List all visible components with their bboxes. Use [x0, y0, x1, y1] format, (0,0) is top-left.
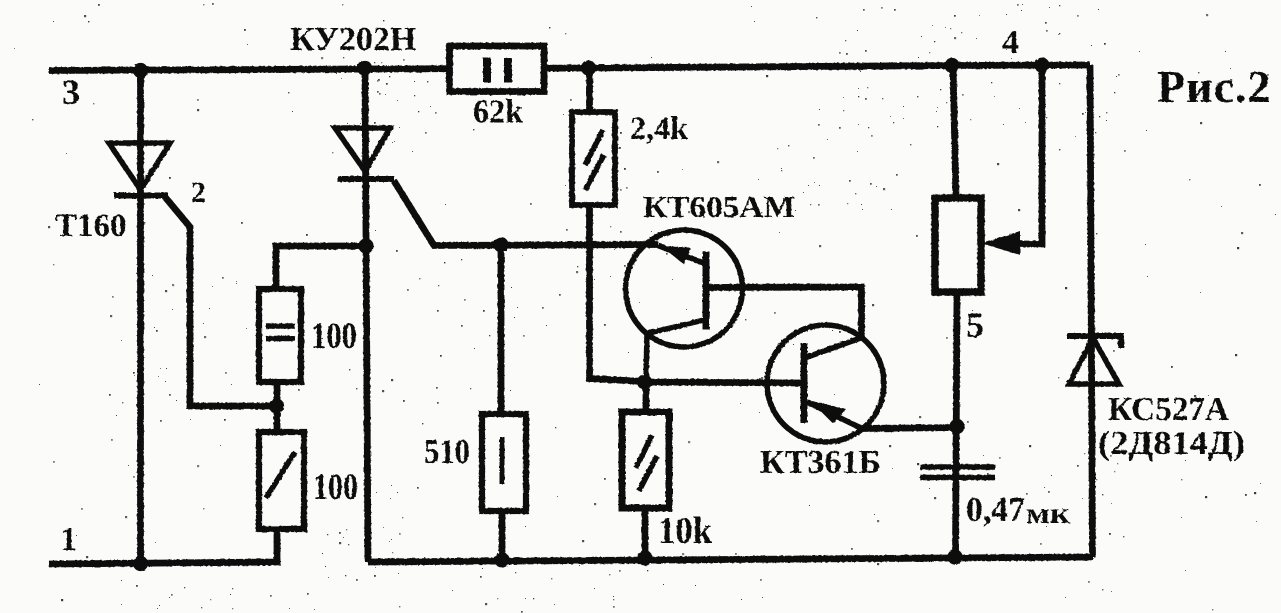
- svg-text:КТ605АМ: КТ605АМ: [643, 189, 795, 224]
- resistor 510 power mark: [500, 437, 505, 484]
- node dot collector: [637, 374, 652, 389]
- svg-text:КТ361Б: КТ361Б: [760, 444, 881, 481]
- transistor Q2 base bar: [801, 343, 808, 423]
- svg-text:КС527А: КС527А: [1108, 391, 1229, 428]
- thyristor VS1 cathode bar: [114, 193, 168, 199]
- transistor Q2 KT361B circle: [767, 325, 884, 442]
- node dot top VS2: [357, 60, 372, 75]
- node dot T160 bottom: [133, 556, 148, 571]
- wire thyristor VS2 cathode vertical: [365, 68, 368, 562]
- node dot 10k bottom: [637, 550, 652, 565]
- svg-text:1: 1: [60, 521, 77, 558]
- resistor 2.4k body: [572, 112, 615, 205]
- transistor Q2 emitter arrow: [810, 401, 846, 424]
- node dot top 22k: [944, 58, 959, 73]
- svg-text:510: 510: [424, 432, 470, 471]
- svg-text:2,4k: 2,4k: [630, 111, 689, 147]
- svg-text:(2Д814Д): (2Д814Д): [1098, 425, 1245, 462]
- svg-text:5: 5: [966, 305, 984, 345]
- svg-text:КУ202Н: КУ202Н: [290, 21, 416, 58]
- wire bottom left bus node 1: [49, 562, 281, 564]
- svg-text:3: 3: [62, 72, 80, 112]
- wire 510 top lead: [498, 245, 505, 414]
- zener diode VD1 triangle: [1069, 338, 1119, 384]
- transistor Q1 collector diagonal: [646, 320, 704, 382]
- svg-text:100: 100: [311, 316, 357, 357]
- resistor 100 lower power mark: [266, 452, 295, 498]
- svg-text:2: 2: [191, 176, 206, 209]
- zener diode VD1 cathode bar: [1067, 336, 1121, 348]
- resistor 100 upper body R2: [259, 289, 301, 382]
- thyristor VS1 T160 triangle: [109, 143, 170, 190]
- node dot top T160: [133, 63, 148, 78]
- wire 2.4k top lead: [586, 69, 593, 113]
- resistor 62k power marks: [487, 58, 508, 83]
- wire collector node to KT361 base: [644, 382, 804, 383]
- transistor Q1 emitter diagonal: [658, 246, 705, 264]
- node dot cap bottom: [947, 549, 962, 564]
- wire 10k top lead: [643, 382, 650, 412]
- thyristor VS2 KU202N triangle: [335, 128, 390, 171]
- wire KT605 base to KT361 collector: [706, 287, 862, 338]
- resistor 100 lower body R3: [259, 432, 304, 529]
- node dot 4 wiper: [1034, 58, 1049, 73]
- transistor Q2 emitter diagonal: [807, 402, 862, 429]
- wire T160 branch vertical: [137, 71, 144, 564]
- node dot 510 bottom: [494, 552, 509, 567]
- resistor 22k body (potentiometer): [935, 198, 981, 292]
- wire top bus 3-4: [49, 65, 1090, 71]
- resistor 100 upper power marks: [266, 326, 295, 339]
- node dot cap top: [949, 419, 964, 434]
- resistor 10k power marks: [636, 435, 657, 491]
- wire 100 bottom lead: [274, 529, 281, 563]
- wire 22k bottom through cap to bottom bus: [956, 292, 958, 557]
- node dot between 100s: [269, 398, 284, 413]
- transistor Q2 collector diagonal: [806, 338, 862, 358]
- svg-text:100: 100: [313, 467, 358, 508]
- svg-text:62k: 62k: [473, 94, 523, 131]
- svg-text:0,47: 0,47: [966, 490, 1025, 529]
- resistor 62k body: [450, 46, 545, 92]
- thyristor VS2 cathode bar: [338, 176, 395, 182]
- node dot 510 top: [493, 237, 508, 252]
- resistor 2.4k power marks: [585, 130, 604, 190]
- wire 22k wiper from node 4: [1018, 65, 1042, 244]
- wire bus to R 100 top: [276, 246, 366, 292]
- wire between 100 resistors: [274, 382, 281, 432]
- resistor 510 body: [482, 414, 526, 511]
- wire right vertical to zener: [1090, 65, 1093, 557]
- wire bottom right bus: [368, 557, 1093, 562]
- svg-text:Т160: Т160: [55, 208, 127, 244]
- wire 22k top lead: [953, 66, 956, 199]
- wire 510 bottom lead: [499, 511, 506, 560]
- transistor Q1 KT605AM circle: [626, 230, 743, 347]
- svg-text:4: 4: [1002, 24, 1019, 61]
- wire 10k bottom lead: [642, 509, 649, 559]
- wire VS2 gate diagonal and emitter bus: [394, 181, 658, 246]
- transistor Q1 emitter arrow: [661, 246, 691, 264]
- wire 2.4k bottom lead to collector node: [590, 205, 645, 382]
- resistor 10k body: [622, 412, 669, 508]
- transistor Q1 base bar: [703, 252, 710, 330]
- svg-text:10k: 10k: [658, 510, 713, 552]
- node dot top 2.4k: [581, 60, 596, 75]
- wire T160 gate to node 2: [165, 197, 276, 406]
- svg-text:мк: мк: [1026, 497, 1071, 530]
- capacitor C1 plates: [920, 467, 995, 478]
- wire KT361 emitter to cap node: [862, 428, 957, 429]
- potentiometer wiper arrow: [982, 231, 1020, 255]
- node dot VS2 cathode bus: [358, 238, 373, 253]
- svg-text:Рис.2: Рис.2: [1157, 61, 1272, 112]
